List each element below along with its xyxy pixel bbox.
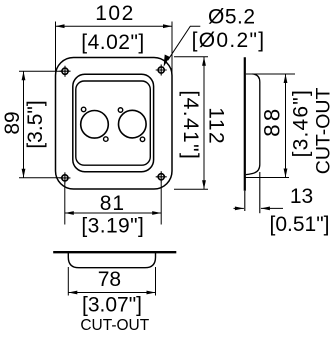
svg-text:78: 78 xyxy=(98,268,121,291)
connector left screw hole top-left xyxy=(81,107,86,112)
extension line left xyxy=(64,183,66,225)
extension line bottom xyxy=(19,177,62,179)
dish profile wall with S-curves xyxy=(246,74,260,175)
corner hole top-left with crosshair xyxy=(60,66,71,77)
arrow right xyxy=(147,291,156,295)
13 right extension line (wall extended) xyxy=(259,172,261,213)
svg-text:[3.5"]: [3.5"] xyxy=(24,100,47,148)
arrow top xyxy=(284,74,288,83)
svg-text:102: 102 xyxy=(95,2,135,25)
connector right screw hole bottom-right xyxy=(140,137,145,142)
corner hole bottom-right with crosshair xyxy=(156,171,167,182)
arrow left xyxy=(56,24,65,28)
svg-text:CUT-OUT: CUT-OUT xyxy=(80,317,149,334)
svg-text:[4.02"]: [4.02"] xyxy=(81,31,145,54)
svg-text:89: 89 xyxy=(1,111,24,134)
svg-text:[3.46"]: [3.46"] xyxy=(290,89,313,157)
extension line right xyxy=(160,182,162,225)
dimension 88 line xyxy=(285,74,287,178)
svg-text:[3.19"]: [3.19"] xyxy=(81,215,144,238)
svg-text:[3.07"]: [3.07"] xyxy=(82,294,142,317)
arrow left xyxy=(68,291,77,295)
right arrow (outside) xyxy=(261,207,283,209)
svg-text:CUT-OUT: CUT-OUT xyxy=(313,87,331,174)
plate outer outline xyxy=(56,58,173,190)
dimension line xyxy=(56,25,173,27)
arrow right xyxy=(152,211,161,215)
leader arrowhead xyxy=(164,55,170,68)
extension line top (through hole centerline) xyxy=(19,70,62,72)
extension line bottom xyxy=(174,188,208,190)
13 left extension line (below flange) xyxy=(244,191,246,211)
arrow right xyxy=(163,24,172,28)
flange (plate edge-on) xyxy=(53,251,176,253)
corner hole top-right with crosshair xyxy=(156,65,167,76)
svg-text:81: 81 xyxy=(100,192,125,215)
78 left extension line xyxy=(67,267,69,296)
left arrow (outside) xyxy=(234,207,244,209)
arrow top xyxy=(202,57,206,66)
extension line left xyxy=(55,22,57,77)
connector left screw hole bottom-right xyxy=(104,137,109,142)
dish floor rounded rect xyxy=(76,81,151,165)
leader line xyxy=(168,26,201,60)
svg-text:Ø5.2: Ø5.2 xyxy=(208,5,256,28)
dimension line xyxy=(65,212,161,214)
arrow top xyxy=(22,71,26,80)
dimension line xyxy=(203,57,205,190)
dish top edge + 88 top extension line xyxy=(246,73,295,75)
arrow bottom xyxy=(202,180,206,189)
flange (plate edge-on) xyxy=(244,57,246,191)
arrow bottom xyxy=(284,169,288,178)
corner hole bottom-left with crosshair xyxy=(59,172,70,183)
connector hole left (big circle) xyxy=(81,111,109,139)
78 right extension line xyxy=(155,267,157,296)
svg-text:[4.41"]: [4.41"] xyxy=(179,90,202,160)
dish lip rounded rect xyxy=(73,74,154,171)
svg-text:[Ø0.2"]: [Ø0.2"] xyxy=(192,29,266,52)
svg-text:[0.51"]: [0.51"] xyxy=(270,213,330,236)
svg-text:112: 112 xyxy=(205,107,228,145)
svg-text:88: 88 xyxy=(259,106,284,137)
svg-text:13: 13 xyxy=(290,185,313,208)
arrow left xyxy=(65,211,74,215)
88 bottom extension line xyxy=(244,177,289,179)
connector right screw hole top-left xyxy=(118,108,123,113)
connector hole right (big circle) xyxy=(119,110,147,138)
dimension line xyxy=(23,71,25,178)
extension line right xyxy=(171,22,173,77)
arrow bottom xyxy=(22,169,26,178)
extension line top xyxy=(174,56,208,58)
dimension 78 line xyxy=(68,292,155,294)
dish U profile xyxy=(68,253,155,268)
